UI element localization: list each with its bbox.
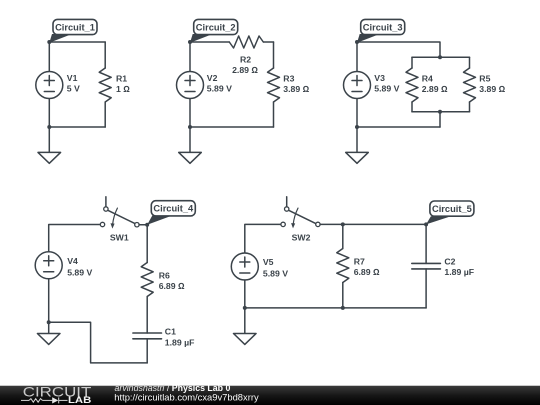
resistor R3 [268,42,280,127]
svg-text:Circuit_5: Circuit_5 [432,204,472,214]
svg-text:2.89 Ω: 2.89 Ω [232,65,258,75]
wire V5 to switch [245,224,281,253]
wire top C3 [357,42,440,57]
node bottom C3 [355,125,359,129]
svg-text:SW1: SW1 [110,233,129,243]
wire top C1 [49,41,105,43]
svg-text:Circuit_3: Circuit_3 [363,22,403,32]
wire node down to R6 [146,225,148,263]
switch SW1 [100,197,139,229]
svg-text:V3: V3 [374,73,385,83]
node switch C5 [341,222,345,226]
svg-text:6.89 Ω: 6.89 Ω [159,281,185,291]
switch SW2 [281,197,320,229]
label Circuit_2 [190,19,238,42]
resistor R1 [99,42,111,127]
junction top parallel [438,55,442,59]
svg-text:LAB: LAB [68,395,91,405]
wire mid-bottom C3 [439,112,441,127]
resistor R7 [337,249,349,308]
voltage source V5 [231,253,258,334]
wire top C2 [190,41,274,43]
wire bottom C2 [190,126,274,128]
label Circuit_4 [147,201,195,225]
voltage source V2 [177,42,204,127]
svg-text:5.89 V: 5.89 V [374,84,399,94]
parallel top bar [412,56,470,58]
resistor R6 [141,263,153,334]
component texts [55,22,506,347]
label Circuit_5 [426,201,474,224]
resistor R5 [464,57,476,111]
svg-text:2.89 Ω: 2.89 Ω [422,84,448,94]
svg-text:C2: C2 [444,256,455,266]
svg-text:C1: C1 [165,327,176,337]
parallel bottom bar [412,111,470,113]
capacitor C1 [133,333,162,363]
logo wire [21,397,68,403]
label Circuit_3 [357,19,405,42]
resistor R2 (horizontal) [229,36,263,48]
svg-text:http://circuitlab.com/cxa9v7bd: http://circuitlab.com/cxa9v7bd8xrry [114,392,259,403]
node bottom C2 [188,125,192,129]
wire switch to C2 [320,223,426,225]
svg-text:1.89 µF: 1.89 µF [444,267,474,277]
logo diode [52,397,58,403]
node top C1 [47,40,51,44]
svg-text:5 V: 5 V [67,84,80,94]
svg-text:R1: R1 [116,74,127,84]
resistor R4 [406,57,418,111]
svg-text:V4: V4 [67,256,78,266]
svg-text:5.89 V: 5.89 V [67,268,92,278]
node top C2 [188,40,192,44]
svg-text:3.89 Ω: 3.89 Ω [283,84,309,94]
svg-text:R7: R7 [354,256,365,266]
svg-text:R2: R2 [240,54,251,64]
node bottom C1 [47,125,51,129]
svg-text:Circuit_2: Circuit_2 [196,22,236,32]
node switch C4 [145,223,149,227]
node bottom C4 [47,320,51,324]
node top C3 [355,40,359,44]
node V5 bottom [243,306,247,310]
voltage source V1 [36,42,63,127]
ground C3 [346,127,369,163]
wire switch to node [139,224,147,226]
voltage source V4 [35,252,62,323]
svg-text:3.89 Ω: 3.89 Ω [479,84,505,94]
voltage source V3 [344,42,371,127]
svg-text:R3: R3 [283,74,294,84]
wire V4 to switch [49,225,101,253]
wire bottom C3 [357,126,440,128]
ground C2 [179,127,202,163]
svg-text:Circuit_4: Circuit_4 [153,204,194,214]
junction bottom parallel [438,110,442,114]
wire bottom C1 [49,126,105,128]
bottom wire C5 [245,307,426,309]
ground C4 [37,322,60,344]
ground C1 [38,127,61,163]
label Circuit_1 [49,19,97,42]
svg-text:6.89 Ω: 6.89 Ω [354,267,380,277]
svg-text:V2: V2 [207,73,218,83]
svg-text:R5: R5 [479,74,490,84]
svg-text:5.89 V: 5.89 V [207,84,232,94]
node R7 bottom [341,306,345,310]
svg-text:1.89 µF: 1.89 µF [165,337,195,347]
capacitor C2 [412,224,441,308]
ground C5 [234,334,257,345]
svg-text:V1: V1 [67,73,78,83]
svg-text:SW2: SW2 [292,233,311,243]
svg-text:V5: V5 [263,257,274,267]
svg-text:5.89 V: 5.89 V [263,269,288,279]
wire R7 branch down [342,224,344,248]
svg-text:R6: R6 [159,270,170,280]
bottom wire C4 [49,322,148,363]
svg-text:1 Ω: 1 Ω [116,84,130,94]
svg-text:Circuit_1: Circuit_1 [55,22,95,32]
node C2 top [424,222,428,226]
svg-text:R4: R4 [422,74,433,84]
